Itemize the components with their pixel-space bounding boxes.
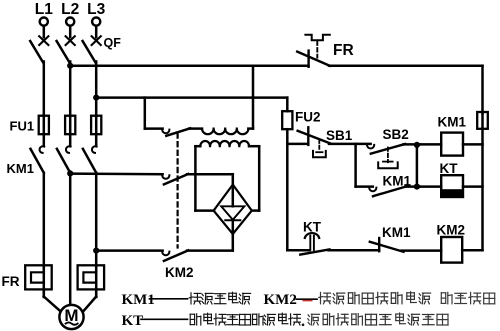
wire node B to KT coil <box>417 185 441 188</box>
wire phase1 to FR heater <box>43 173 46 267</box>
contactor KM1 main contact blade <box>83 149 96 173</box>
contactor KM2 contact 1 blade <box>166 128 190 136</box>
wire KT coil to rail <box>463 185 483 188</box>
fuse FU1 element b <box>65 116 75 135</box>
FR contact blade <box>297 52 330 66</box>
contactor KM1 main contact arc <box>92 146 97 153</box>
wire control left rail down <box>286 144 289 250</box>
wire L1 stem <box>43 26 46 38</box>
wire L3 control rail <box>96 96 287 99</box>
transformer secondary winding <box>195 141 259 146</box>
breaker QF pole L2 blade <box>57 41 70 63</box>
FR contact dashed link <box>316 42 318 58</box>
pushbutton SB1 blade <box>298 131 330 144</box>
wire FU2 to SB1 <box>287 143 308 146</box>
wire FR left to motor <box>44 289 62 312</box>
pushbutton SB2 label <box>383 127 409 142</box>
wire L2 stem <box>69 26 72 38</box>
coil KM2 <box>441 237 462 263</box>
contactor KM1 NC label <box>382 225 411 240</box>
breaker QF pole L1 blade <box>30 41 43 63</box>
contactor KM1 main contact arc <box>66 146 71 153</box>
contactor KM1 main contact wire <box>43 134 46 146</box>
fuse control right <box>477 112 488 129</box>
wire right rail upper <box>481 66 484 113</box>
wire phase3 to FR heater <box>95 173 98 267</box>
legend line 1 dash 2 (partly red) <box>297 298 318 300</box>
pushbutton SB1 bar <box>307 127 309 145</box>
legend line 2 dash <box>141 318 188 320</box>
breaker QF pole L2 X mark <box>66 36 75 45</box>
fuse FU1 element a <box>39 116 49 135</box>
bridge rectifier center wire <box>232 185 235 236</box>
coil KT label <box>440 161 459 176</box>
wire L1 to FU1 <box>43 62 46 117</box>
legend line 2: duan dian yan shi ... <box>190 313 304 326</box>
wire KT contact to KM1 NC <box>329 249 380 252</box>
thermal relay FR label <box>2 274 20 289</box>
coil KM2 label <box>437 223 466 238</box>
motor M letter <box>64 306 78 325</box>
wire FR to right rail <box>329 64 483 67</box>
thermal relay FR heater element <box>25 265 52 297</box>
wire bridge bottom to KM2 contact 3 <box>232 234 235 251</box>
wire KM2 contact 2 to bridge top <box>187 174 233 185</box>
wire KM1 coil to rail <box>463 143 483 146</box>
contactor KM1 main contacts label <box>7 161 34 176</box>
fuse FU2 <box>282 98 292 145</box>
wire to KM1 aux contact <box>356 185 373 188</box>
wire node A to KM1 coil <box>417 143 441 146</box>
node L3 label <box>87 1 105 18</box>
pushbutton SB2 dashed stem <box>387 148 389 163</box>
node L2 junction dot <box>67 63 73 69</box>
motor M circle <box>59 305 83 329</box>
fuse FU1 label <box>10 119 35 134</box>
wire node A to node B <box>416 145 419 187</box>
contactor KM2 contact 1 wire <box>145 127 163 130</box>
wire secondary left to bridge <box>195 146 214 210</box>
contactor KM1 main contact blade <box>57 149 70 173</box>
contactor KM1 aux arc <box>369 188 376 192</box>
node A dot <box>414 142 420 148</box>
pushbutton SB1 dashed stem <box>318 140 320 152</box>
wire KM1 NC to KM2 coil <box>402 249 442 252</box>
wire KM2 contact 3 to bridge bottom <box>187 249 233 252</box>
wire phase2 tap to KM2 contact 2 <box>70 172 162 175</box>
wire L2 to FU1 <box>69 62 72 117</box>
wire SB1 branch down <box>354 144 357 187</box>
contactor KM2 contact 1 arc <box>162 130 169 134</box>
time relay KT contact blade <box>300 249 329 254</box>
legend line 1 dash <box>150 298 188 300</box>
terminal circle L1 <box>40 18 48 26</box>
node L2 label <box>61 1 79 18</box>
coil KT <box>441 175 463 197</box>
wire L3 stem <box>95 26 98 38</box>
thermal relay FR contact label <box>333 42 354 59</box>
breaker QF pole L3 X mark <box>92 36 101 45</box>
contactor KM2 contact 2 arc <box>162 175 169 179</box>
breaker QF pole L3 blade <box>83 41 96 63</box>
node B dot <box>414 184 420 190</box>
breaker QF label <box>104 36 122 50</box>
contactor KM2 contact 3 arc <box>162 252 169 256</box>
bridge rectifier VC diamond <box>214 185 252 234</box>
pushbutton SB2 arc <box>367 145 374 149</box>
node L1 label <box>35 1 53 18</box>
thermal relay FR contact actuator <box>305 35 329 40</box>
wire SB2 to node A <box>404 143 421 146</box>
contactor KM2 contacts label <box>165 265 194 280</box>
contactor KM1 main contact arc <box>40 146 45 153</box>
legend line 1: KM1 text <box>122 292 155 308</box>
pushbutton SB2 blade <box>371 144 405 154</box>
contactor KM2 contact 3 blade <box>164 250 188 261</box>
wire KM2 coil to rail <box>462 249 482 252</box>
pushbutton SB1 actuator <box>313 151 326 157</box>
node phase3 junction dot <box>93 248 99 254</box>
legend line 1: jagged braking text <box>319 292 495 304</box>
wire SB1 to SB2 <box>329 143 371 146</box>
terminal circle L3 <box>92 18 100 26</box>
wire KM2 contact 1 to primary <box>189 127 202 130</box>
contactor KM1 aux label <box>383 173 412 188</box>
wire phase3 tap to KM2 contact 3 <box>96 249 162 252</box>
time relay KT contact delay symbol <box>305 233 319 250</box>
wire FR right to motor <box>83 289 96 312</box>
transformer primary winding <box>202 129 253 135</box>
wire rail to transformer primary <box>252 66 255 129</box>
legend line 1: jie tong zhu dian yuan <box>189 292 250 304</box>
fuse FU2 label <box>295 110 321 125</box>
pushbutton SB2 actuator <box>378 162 398 169</box>
legend line 1: KM2 text <box>264 292 297 308</box>
contactor KM1 main contact blade <box>31 149 44 173</box>
breaker QF pole L1 X mark <box>39 36 48 45</box>
contactor KM1 aux blade <box>373 186 407 196</box>
node L3 junction dot <box>93 95 99 101</box>
wire rail drop to KM2 top contact <box>144 98 147 129</box>
KM2 linkage dashed line <box>177 134 179 248</box>
FR contact bar <box>307 51 309 67</box>
bridge rectifier diode <box>221 206 244 220</box>
coil KM1 label <box>438 115 467 130</box>
contactor KM1 main contact wire <box>69 134 72 146</box>
coil KM1 <box>441 133 463 156</box>
terminal circle L2 <box>66 18 74 26</box>
node phase2 junction dot <box>67 170 73 176</box>
wire to KT contact <box>287 249 309 252</box>
contactor KM1 main contact wire <box>95 134 98 146</box>
time relay KT contact label <box>303 220 322 235</box>
wire L2 control rail <box>70 64 308 67</box>
contactor KM1 NC blade <box>370 242 404 252</box>
pushbutton SB1 label <box>326 128 353 143</box>
legend red dash overlay <box>303 300 313 302</box>
thermal relay FR heater element <box>78 265 105 297</box>
legend line 2: KT text <box>122 313 144 329</box>
contactor KM2 contact 2 blade <box>164 174 188 184</box>
fuse FU1 element c <box>91 116 101 135</box>
wire right rail <box>481 129 484 250</box>
wire phase2 to motor <box>69 173 72 306</box>
legend line 2: jagged text <box>308 313 448 325</box>
wire secondary right to bridge <box>252 146 260 210</box>
wire L3 to FU1 <box>95 62 98 117</box>
wire KM1 aux to node B <box>406 185 421 188</box>
contactor KM1 NC bar <box>378 238 380 251</box>
